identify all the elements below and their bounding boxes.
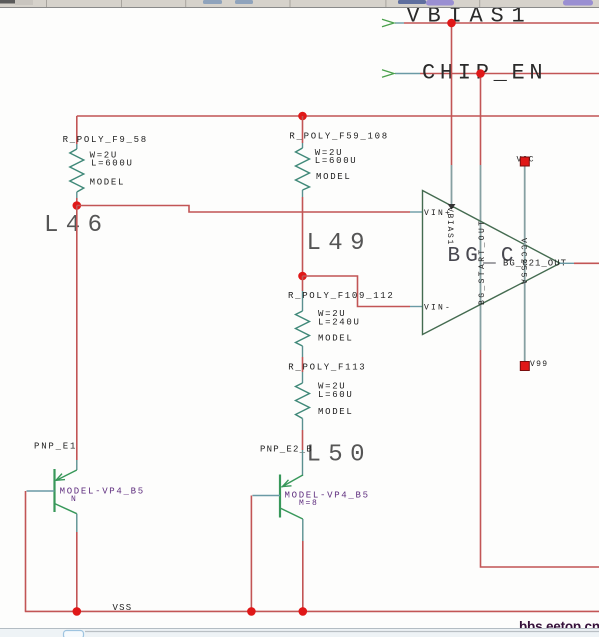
svg-text:L49: L49 [307,230,372,257]
wire base PNP_E1 to VSS [25,491,27,611]
svg-text:R_POLY_F59_108: R_POLY_F59_108 [289,132,388,142]
svg-text:V99: V99 [530,360,548,369]
wire CHIP_EN horizontal [420,73,599,75]
wire base PNP_E2_B to VSS [250,496,252,612]
wire VSS rail [25,610,599,612]
svg-text:VIN-: VIN- [424,304,452,313]
wire from L46 node to opamp VIN+ [77,206,410,213]
supply V99 [520,362,529,371]
resistor R_POLY_F109_112 [288,276,395,357]
wire VBIAS1 teal tail [395,22,404,24]
svg-text:L=240U: L=240U [318,318,361,328]
wire collector PNP_E2_B to VSS [302,541,304,611]
junction dot [298,112,307,121]
junction dot VBIAS1 [447,19,456,28]
svg-text:L=600U: L=600U [315,156,358,166]
wire collector PNP_E1 to VSS [76,532,78,611]
wire L46 node down to PNP_E1 [76,206,78,461]
wire middle column down [302,197,304,276]
svg-text:L=600U: L=600U [91,159,134,169]
pin stub VIN+ [410,211,423,213]
svg-text:MODEL: MODEL [318,407,354,417]
output pin stub [560,262,574,264]
collector stub [76,514,78,532]
wire BG_START down and right [481,350,599,567]
pin stub VBIAS1 into opamp [451,165,453,206]
emitter stub [76,460,78,470]
wire top horizontal rail [77,115,599,117]
resistor R_POLY_F113 [288,363,366,431]
svg-text:PNP_E2_B: PNP_E2_B [260,445,313,455]
svg-text:MODEL-VP4_B5: MODEL-VP4_B5 [285,491,370,501]
wire node to opamp VIN- [303,276,411,307]
toolbar [0,0,599,8]
wire between resistors [302,357,304,372]
svg-text:N: N [71,495,78,504]
pin stub BG_START through opamp [480,165,482,350]
svg-text:PNP_E1: PNP_E1 [34,442,77,452]
svg-text:BG_C21_OUT: BG_C21_OUT [503,259,567,269]
svg-text:R_POLY_F9_58: R_POLY_F9_58 [63,135,148,145]
wire output [574,262,599,264]
svg-text:R_POLY_F109_112: R_POLY_F109_112 [288,291,395,301]
node L46 junction [73,201,82,210]
transistor Q1 PNP_E1 [27,442,145,533]
svg-text:M=8: M=8 [299,499,319,508]
wire vertical CHIP_EN net [480,74,482,166]
svg-text:L=60U: L=60U [318,390,354,400]
svg-text:VBIAS1: VBIAS1 [445,207,454,246]
collector stub [302,519,304,541]
transistor Q2 PNP_E2_B [252,445,369,542]
svg-text:MODEL: MODEL [316,172,352,182]
resistor R_POLY_F59_108 [289,116,388,197]
svg-text:MODEL: MODEL [90,178,126,188]
svg-text:L50: L50 [307,442,372,469]
pin arrow CHIP_EN [382,70,394,78]
wire VBIAS1 horizontal [404,22,599,24]
resistor R_POLY_F9_58 [63,116,148,206]
svg-text:R_POLY_F113: R_POLY_F113 [288,363,366,373]
junction dot CHIP_EN [476,69,485,78]
pin stub VCC through opamp [524,166,526,362]
junction dot VSS mid [299,607,308,616]
pin arrow VBIAS1 [382,19,394,27]
base stub [27,490,55,492]
svg-text:MODEL: MODEL [318,334,354,344]
junction dot VSS base [247,607,256,616]
status bar [0,629,599,637]
wire down to PNP_E2_B [302,430,304,450]
svg-text:VSS: VSS [113,603,133,613]
node junction mid [298,272,307,281]
emitter stub [302,450,304,476]
op-amp U1 BG_C [423,191,561,335]
wire vertical VBIAS1 net [451,23,453,165]
pin stub VIN- [410,306,423,308]
base stub [252,495,280,497]
junction dot VSS left [73,607,82,616]
wire CHIP_EN teal tail [395,73,420,75]
pin arrow top [448,204,456,210]
